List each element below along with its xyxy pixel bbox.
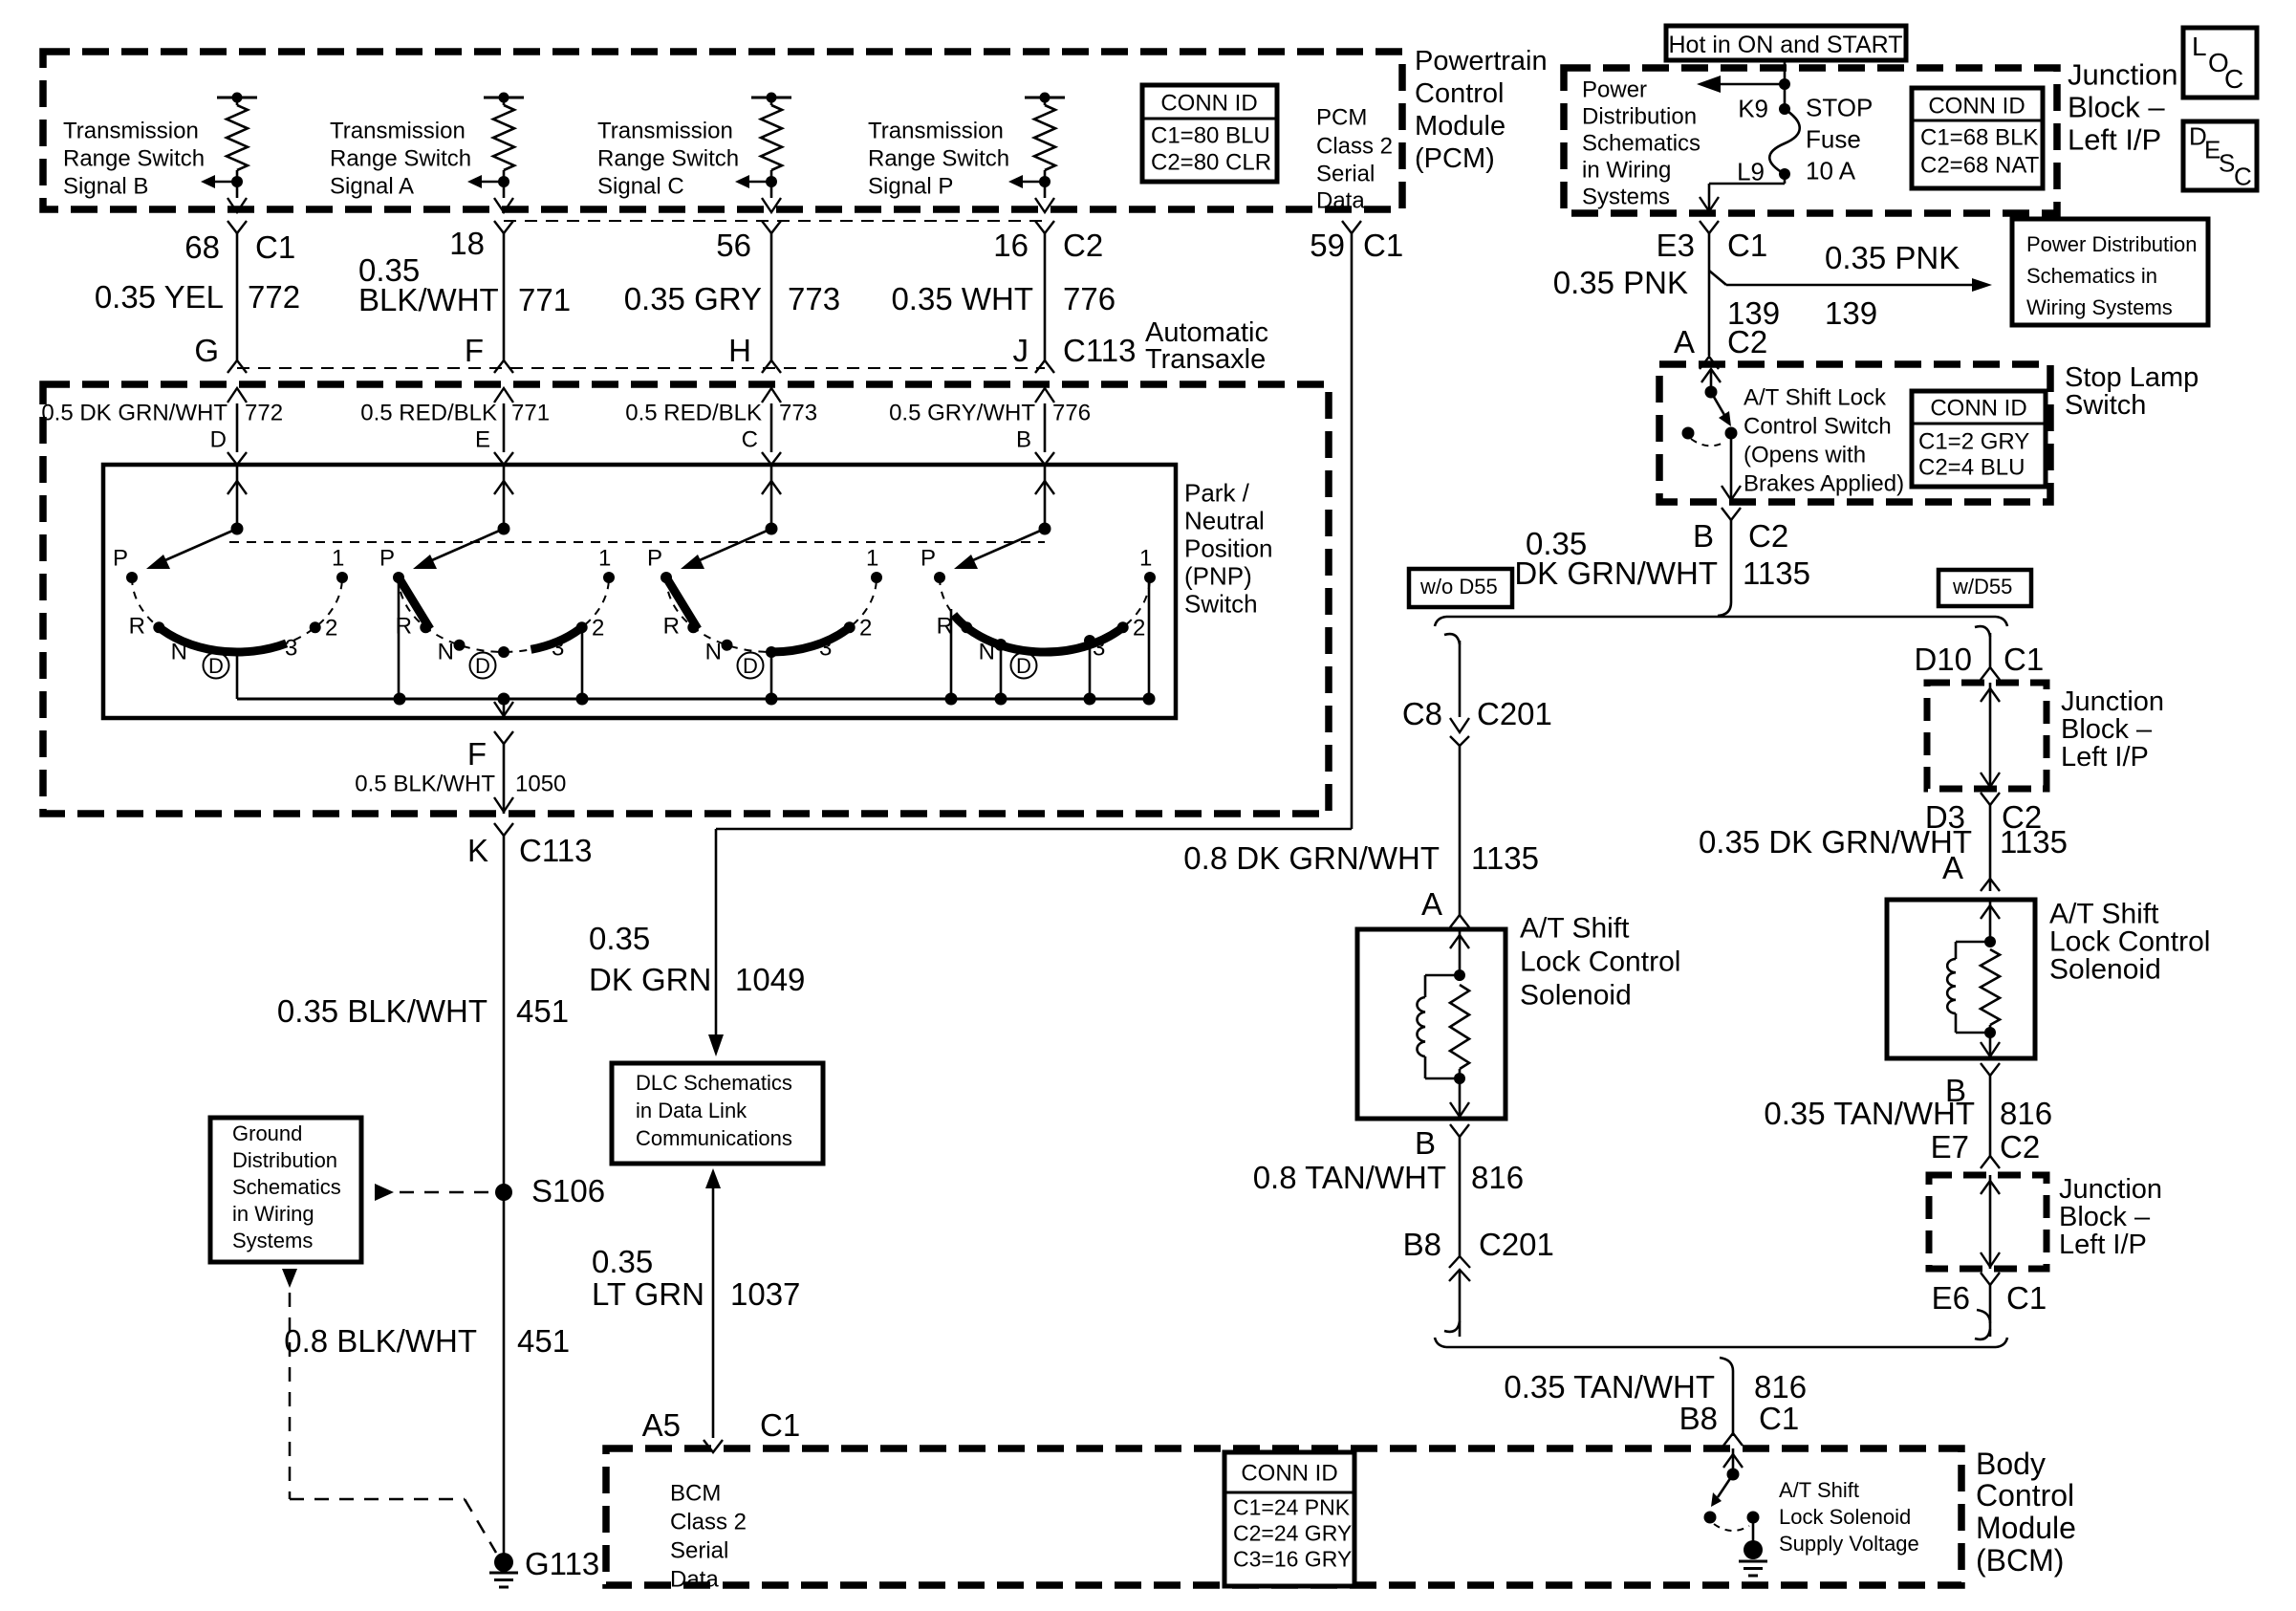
svg-text:Systems: Systems: [232, 1229, 313, 1252]
svg-text:0.35 DK GRN/WHT: 0.35 DK GRN/WHT: [1699, 824, 1972, 860]
svg-text:C1: C1: [760, 1407, 800, 1443]
svg-text:A: A: [1942, 850, 1963, 885]
svg-text:C2: C2: [1063, 228, 1103, 263]
svg-text:1049: 1049: [735, 962, 805, 997]
svg-text:Communications: Communications: [636, 1126, 792, 1150]
svg-text:16: 16: [993, 228, 1029, 263]
svg-text:C2: C2: [1727, 324, 1767, 359]
svg-text:C: C: [742, 426, 758, 452]
svg-text:w/D55: w/D55: [1952, 575, 2012, 599]
svg-text:w/o D55: w/o D55: [1419, 575, 1498, 599]
svg-text:68: 68: [184, 229, 220, 265]
svg-text:Control: Control: [1415, 78, 1505, 109]
svg-text:R: R: [129, 613, 145, 639]
svg-text:Control Switch: Control Switch: [1744, 413, 1892, 439]
svg-text:Range Switch: Range Switch: [597, 145, 739, 171]
svg-text:PCM: PCM: [1316, 104, 1367, 130]
svg-text:773: 773: [788, 281, 840, 316]
svg-text:Park /: Park /: [1184, 479, 1250, 508]
svg-text:1037: 1037: [730, 1276, 800, 1312]
svg-text:Data: Data: [1316, 187, 1365, 213]
svg-text:H: H: [728, 333, 751, 368]
svg-text:C1=24 PNK: C1=24 PNK: [1233, 1495, 1351, 1520]
svg-text:Signal C: Signal C: [597, 173, 684, 199]
svg-text:CONN ID: CONN ID: [1930, 395, 2026, 421]
svg-text:Signal B: Signal B: [63, 173, 148, 199]
svg-text:Transaxle: Transaxle: [1145, 344, 1266, 375]
svg-text:P: P: [379, 545, 395, 571]
svg-text:Body: Body: [1976, 1447, 2046, 1481]
svg-text:Switch: Switch: [1184, 590, 1258, 619]
svg-text:0.5 DK GRN/WHT: 0.5 DK GRN/WHT: [41, 400, 227, 425]
svg-text:C1: C1: [1759, 1401, 1799, 1436]
svg-text:1: 1: [1139, 545, 1152, 571]
svg-text:C2: C2: [2000, 1129, 2040, 1165]
svg-text:Transmission: Transmission: [63, 118, 199, 143]
svg-text:Module: Module: [1976, 1511, 2076, 1545]
svg-text:F: F: [465, 333, 484, 368]
svg-text:E3: E3: [1657, 228, 1695, 263]
svg-text:C8: C8: [1402, 696, 1442, 731]
svg-text:C1=80 BLU: C1=80 BLU: [1151, 122, 1270, 148]
svg-text:Transmission: Transmission: [330, 118, 466, 143]
svg-text:816: 816: [1754, 1369, 1807, 1404]
svg-text:0.35 WHT: 0.35 WHT: [891, 281, 1033, 316]
svg-text:Signal P: Signal P: [868, 173, 953, 199]
svg-text:Schematics: Schematics: [232, 1175, 341, 1199]
svg-text:DLC Schematics: DLC Schematics: [636, 1071, 792, 1095]
svg-text:3: 3: [285, 635, 297, 661]
svg-text:B: B: [1415, 1125, 1436, 1161]
svg-text:Range Switch: Range Switch: [868, 145, 1009, 171]
svg-text:B: B: [1693, 518, 1714, 554]
svg-text:Position: Position: [1184, 534, 1273, 563]
svg-text:1: 1: [598, 545, 611, 571]
svg-text:0.35 PNK: 0.35 PNK: [1553, 265, 1688, 300]
svg-text:59: 59: [1310, 228, 1345, 263]
svg-text:R: R: [663, 613, 680, 639]
svg-text:Junction: Junction: [2061, 686, 2164, 717]
svg-text:773: 773: [779, 400, 817, 425]
svg-text:Range Switch: Range Switch: [330, 145, 471, 171]
svg-text:G: G: [194, 333, 219, 368]
svg-text:1050: 1050: [515, 771, 566, 796]
svg-text:CONN ID: CONN ID: [1160, 90, 1257, 116]
svg-text:2: 2: [592, 615, 604, 641]
svg-text:Powertrain: Powertrain: [1415, 46, 1548, 76]
svg-text:Control: Control: [1976, 1478, 2074, 1513]
svg-text:Block –: Block –: [2061, 714, 2153, 745]
svg-text:1: 1: [332, 545, 344, 571]
svg-text:S: S: [2219, 149, 2235, 178]
svg-text:in Wiring: in Wiring: [232, 1202, 314, 1226]
svg-text:139: 139: [1825, 295, 1877, 331]
svg-text:776: 776: [1063, 281, 1116, 316]
svg-text:D: D: [210, 426, 227, 452]
svg-text:10 A: 10 A: [1806, 157, 1856, 185]
svg-text:0.35 TAN/WHT: 0.35 TAN/WHT: [1764, 1096, 1975, 1131]
svg-text:C1: C1: [2004, 642, 2044, 677]
svg-text:L9: L9: [1737, 158, 1765, 186]
svg-text:Junction: Junction: [2068, 57, 2177, 91]
svg-text:0.5 BLK/WHT: 0.5 BLK/WHT: [355, 771, 495, 796]
svg-text:771: 771: [518, 282, 571, 317]
svg-text:Fuse: Fuse: [1806, 125, 1861, 154]
svg-text:E: E: [475, 426, 490, 452]
svg-text:Lock Solenoid: Lock Solenoid: [1779, 1505, 1911, 1529]
svg-text:0.8 BLK/WHT: 0.8 BLK/WHT: [284, 1323, 477, 1359]
svg-text:S106: S106: [531, 1173, 605, 1208]
svg-text:B8: B8: [1403, 1227, 1441, 1262]
svg-text:C1: C1: [1727, 228, 1767, 263]
svg-text:B: B: [1016, 426, 1031, 452]
svg-text:C201: C201: [1479, 1227, 1554, 1262]
svg-text:A5: A5: [642, 1407, 681, 1443]
svg-text:0.35 GRY: 0.35 GRY: [624, 281, 762, 316]
svg-text:1135: 1135: [2000, 824, 2068, 860]
svg-text:816: 816: [1471, 1160, 1524, 1195]
svg-text:K9: K9: [1738, 95, 1768, 123]
svg-text:C3=16 GRY: C3=16 GRY: [1233, 1547, 1352, 1572]
svg-text:C1=2 GRY: C1=2 GRY: [1918, 428, 2029, 454]
svg-text:P: P: [921, 545, 936, 571]
svg-text:(PCM): (PCM): [1415, 143, 1495, 174]
svg-text:in Data Link: in Data Link: [636, 1099, 747, 1122]
svg-text:C1=68 BLK: C1=68 BLK: [1920, 124, 2038, 150]
svg-text:56: 56: [716, 228, 751, 263]
svg-text:2: 2: [1133, 615, 1145, 641]
svg-text:F: F: [467, 736, 487, 772]
svg-text:(BCM): (BCM): [1976, 1543, 2064, 1578]
svg-text:L: L: [2192, 32, 2207, 61]
svg-text:C1: C1: [1363, 228, 1403, 263]
svg-text:Power Distribution: Power Distribution: [2026, 232, 2198, 256]
svg-text:0.8 DK GRN/WHT: 0.8 DK GRN/WHT: [1183, 840, 1440, 876]
svg-text:A: A: [1421, 886, 1442, 922]
svg-text:D10: D10: [1914, 642, 1972, 677]
svg-text:N: N: [705, 639, 722, 664]
svg-text:0.35 PNK: 0.35 PNK: [1825, 240, 1960, 275]
svg-text:451: 451: [517, 1323, 570, 1359]
svg-text:Serial: Serial: [670, 1537, 728, 1563]
svg-text:0.35: 0.35: [589, 921, 650, 956]
svg-text:Transmission: Transmission: [597, 118, 733, 143]
svg-text:Distribution: Distribution: [232, 1148, 337, 1172]
svg-text:Class 2: Class 2: [1316, 133, 1393, 159]
svg-text:Transmission: Transmission: [868, 118, 1004, 143]
svg-text:2: 2: [325, 615, 337, 641]
svg-text:Data: Data: [670, 1566, 719, 1592]
svg-text:Lock Control: Lock Control: [1520, 947, 1680, 978]
svg-text:C2=4 BLU: C2=4 BLU: [1918, 454, 2025, 480]
svg-text:18: 18: [449, 226, 485, 261]
svg-text:D: D: [208, 654, 224, 678]
svg-text:Range Switch: Range Switch: [63, 145, 205, 171]
svg-text:Switch: Switch: [2065, 390, 2146, 421]
svg-text:C113: C113: [519, 833, 592, 868]
svg-text:C1: C1: [2006, 1280, 2047, 1316]
svg-text:Schematics: Schematics: [1582, 130, 1700, 156]
svg-text:CONN ID: CONN ID: [1928, 93, 2025, 119]
svg-text:Left I/P: Left I/P: [2061, 742, 2149, 773]
svg-text:816: 816: [2000, 1096, 2052, 1131]
svg-text:C: C: [2234, 163, 2252, 191]
svg-text:0.35: 0.35: [592, 1244, 653, 1279]
svg-text:D: D: [743, 654, 758, 678]
svg-text:Neutral: Neutral: [1184, 507, 1265, 535]
svg-text:G113: G113: [525, 1546, 599, 1581]
svg-text:C2=24 GRY: C2=24 GRY: [1233, 1521, 1352, 1546]
svg-text:Supply Voltage: Supply Voltage: [1779, 1532, 1919, 1556]
svg-text:Block –: Block –: [2059, 1202, 2151, 1232]
svg-text:Hot in ON and START: Hot in ON and START: [1669, 32, 1903, 58]
svg-text:Stop Lamp: Stop Lamp: [2065, 362, 2199, 393]
svg-text:Class 2: Class 2: [670, 1509, 747, 1535]
svg-text:0.5 RED/BLK: 0.5 RED/BLK: [625, 400, 762, 425]
svg-text:776: 776: [1052, 400, 1091, 425]
svg-text:C: C: [2224, 64, 2243, 94]
svg-text:Distribution: Distribution: [1582, 103, 1697, 129]
svg-text:Module: Module: [1415, 111, 1505, 142]
svg-text:Signal A: Signal A: [330, 173, 414, 199]
svg-text:Left I/P: Left I/P: [2059, 1230, 2147, 1260]
svg-text:0.5 RED/BLK: 0.5 RED/BLK: [360, 400, 497, 425]
svg-text:1: 1: [866, 545, 878, 571]
svg-text:Block –: Block –: [2068, 90, 2165, 123]
svg-text:C2=80 CLR: C2=80 CLR: [1151, 149, 1271, 175]
svg-text:Ground: Ground: [232, 1121, 302, 1145]
svg-text:A/T Shift: A/T Shift: [1520, 913, 1630, 945]
svg-text:Junction: Junction: [2059, 1174, 2162, 1205]
svg-text:Solenoid: Solenoid: [1520, 980, 1632, 1012]
svg-text:E6: E6: [1932, 1280, 1970, 1316]
svg-text:N: N: [438, 639, 454, 664]
svg-text:2: 2: [859, 615, 872, 641]
svg-text:771: 771: [511, 400, 550, 425]
svg-text:1135: 1135: [1743, 555, 1810, 591]
svg-text:C2=68 NAT: C2=68 NAT: [1920, 152, 2040, 178]
svg-text:Schematics in: Schematics in: [2026, 264, 2157, 288]
svg-text:Brakes Applied): Brakes Applied): [1744, 470, 1904, 496]
svg-text:P: P: [647, 545, 662, 571]
svg-text:Left I/P: Left I/P: [2068, 122, 2161, 156]
svg-text:0.35 YEL: 0.35 YEL: [95, 279, 224, 315]
svg-text:D: D: [475, 654, 490, 678]
svg-text:C1: C1: [255, 229, 295, 265]
svg-text:STOP: STOP: [1806, 94, 1873, 122]
svg-text:D: D: [1016, 654, 1031, 678]
svg-text:451: 451: [516, 993, 569, 1029]
svg-text:in Wiring: in Wiring: [1582, 157, 1671, 183]
svg-text:P: P: [113, 545, 128, 571]
svg-text:(Opens with: (Opens with: [1744, 442, 1866, 468]
svg-text:A: A: [1674, 324, 1695, 359]
svg-text:B8: B8: [1679, 1401, 1718, 1436]
svg-text:LT GRN: LT GRN: [592, 1276, 704, 1312]
svg-text:772: 772: [248, 279, 300, 315]
svg-text:J: J: [1013, 333, 1029, 368]
svg-text:CONN ID: CONN ID: [1241, 1460, 1337, 1486]
svg-text:A/T Shift: A/T Shift: [1779, 1478, 1859, 1502]
svg-text:BCM: BCM: [670, 1480, 721, 1506]
svg-text:Solenoid: Solenoid: [2049, 954, 2161, 986]
svg-text:0.8 TAN/WHT: 0.8 TAN/WHT: [1253, 1160, 1446, 1195]
svg-text:C201: C201: [1477, 696, 1552, 731]
svg-text:DK GRN/WHT: DK GRN/WHT: [1514, 555, 1718, 591]
svg-text:1135: 1135: [1471, 840, 1539, 876]
svg-text:DK GRN: DK GRN: [589, 962, 711, 997]
svg-text:Systems: Systems: [1582, 184, 1670, 209]
svg-text:K: K: [467, 833, 488, 868]
svg-text:0.35 BLK/WHT: 0.35 BLK/WHT: [277, 993, 487, 1029]
svg-text:E7: E7: [1931, 1129, 1969, 1165]
svg-text:Power: Power: [1582, 76, 1647, 102]
svg-text:C2: C2: [1748, 518, 1788, 554]
svg-text:(PNP): (PNP): [1184, 562, 1252, 591]
svg-text:Serial: Serial: [1316, 161, 1375, 186]
svg-text:C113: C113: [1063, 333, 1136, 368]
svg-text:0.35 TAN/WHT: 0.35 TAN/WHT: [1504, 1369, 1715, 1404]
svg-text:BLK/WHT: BLK/WHT: [358, 282, 499, 317]
svg-text:772: 772: [245, 400, 283, 425]
svg-text:0.5 GRY/WHT: 0.5 GRY/WHT: [889, 400, 1035, 425]
svg-text:Wiring Systems: Wiring Systems: [2026, 295, 2173, 319]
svg-text:A/T Shift Lock: A/T Shift Lock: [1744, 384, 1887, 410]
